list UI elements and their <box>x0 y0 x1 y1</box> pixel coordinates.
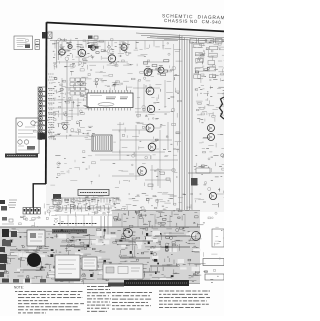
parts at far left above PCB <box>2 217 14 224</box>
display board comb row <box>55 198 118 203</box>
display block bottom line <box>55 214 112 216</box>
wires and small parts, control section <box>49 77 92 120</box>
heavy jagged wire at right edge <box>220 97 225 119</box>
connector box right column <box>212 229 224 247</box>
wire: main top rail <box>50 40 178 42</box>
notes list left column <box>15 292 84 313</box>
transistor Q14 <box>138 167 147 176</box>
transformer T1 (hatched box) <box>92 135 112 151</box>
PCB dark solder specks <box>3 229 174 278</box>
ground lug marks at left edge <box>0 200 17 211</box>
notes column 3 <box>112 293 152 310</box>
PCB vertical traces x100-108 <box>101 216 108 239</box>
dark marks along left edge of PCB <box>0 247 6 277</box>
speaker SP1 (black circle) <box>27 253 41 267</box>
wire: links near transformer <box>95 155 150 160</box>
label box right column 2 <box>205 274 224 280</box>
notes sub column <box>87 287 111 312</box>
transistor Q16 <box>208 134 215 141</box>
dark marks along PCB bottom edge left <box>2 279 46 283</box>
wire: v-wire x136 <box>135 125 137 180</box>
wire: vertical bus lines right side <box>150 35 192 211</box>
connector: small block cluster right of line <box>88 36 98 43</box>
dark parts cluster near line <box>88 45 99 49</box>
labels above strip <box>48 74 54 83</box>
wire: long slanted rails under border <box>136 33 224 42</box>
label box right column 1 <box>203 259 224 266</box>
wire: verticals in control section <box>62 78 78 120</box>
wires above IC <box>93 78 132 92</box>
wires right of IC <box>135 81 181 120</box>
resistor group right mid <box>195 85 229 122</box>
dark bar left remnant <box>108 283 124 287</box>
IC U1 with pins <box>87 90 133 111</box>
wires and small parts, sparse below IF <box>57 65 133 76</box>
wire: heavy left vertical line <box>45 22 48 184</box>
wire: long vertical at x67 <box>66 60 68 133</box>
PCB parts main left <box>1 228 113 284</box>
display board components row <box>54 196 121 217</box>
box row under border top right <box>190 39 222 44</box>
PCB dark bus rows <box>10 236 190 272</box>
block: display board label box <box>78 190 109 196</box>
connection wires into PCB <box>60 214 185 227</box>
connector CN1 at tuner box <box>35 40 40 50</box>
transistor Q4 <box>91 44 96 50</box>
label bar under sub board <box>5 154 38 158</box>
svg-text:NOTE:: NOTE: <box>14 286 24 290</box>
wire: long vertical at x173 <box>173 44 175 205</box>
wires between sub board and strip <box>33 120 49 134</box>
wire: drops from top rail <box>55 41 163 53</box>
PCB white component patches <box>2 230 201 284</box>
label text on bar <box>7 155 36 157</box>
connector: multi-pin ring strip CN2 <box>38 87 55 140</box>
wire: h-rail y130 <box>112 129 150 131</box>
PCB parts upper right <box>114 210 204 229</box>
notes column 4 <box>159 291 210 308</box>
wire: vertical pair x57 <box>57 40 59 64</box>
transistor Q5 <box>108 53 115 62</box>
transistor Q8 <box>158 65 164 73</box>
wires and parts, vertical amp section <box>113 122 181 187</box>
connector row under heavy line <box>23 208 40 215</box>
transistor Q17 <box>209 192 216 199</box>
PCB trace lines <box>5 231 206 280</box>
parts right column lower <box>194 123 229 208</box>
transistor Q6 <box>121 43 127 51</box>
label box on divider <box>196 168 210 173</box>
display board lower comb row <box>58 206 112 211</box>
wire: h-rail y152 <box>112 151 165 153</box>
relay box <box>27 230 45 246</box>
sparse wires near heavy line <box>50 151 99 185</box>
wires and parts below control section <box>48 120 95 139</box>
dark jack blocks left of display row <box>53 194 61 205</box>
wire: divider line right column <box>188 172 224 174</box>
resistor row blocks top right <box>194 44 218 78</box>
wires cluster left of bus, lower <box>145 165 175 190</box>
connector: dark block at strip bottom <box>38 133 47 140</box>
connector: jack block on main line <box>42 32 52 39</box>
wire: horizontals in control section <box>48 100 86 114</box>
transistor Q12 <box>146 124 154 132</box>
transistor Q15 <box>208 125 215 132</box>
wire: h-rail y160 <box>130 159 178 161</box>
wire: heavy staircase to bottom connector <box>33 184 46 208</box>
power transformer box <box>55 255 80 281</box>
capacitor C30 <box>63 125 68 130</box>
transistor Q11 <box>147 105 154 112</box>
PCB parts main right <box>111 228 202 285</box>
PCB upper edge line right <box>112 210 200 228</box>
wire: v-wire x168 <box>167 122 169 150</box>
wire: h-rail y176 <box>112 175 140 177</box>
resistor ladder cluster <box>70 78 85 95</box>
component cluster mid top <box>143 60 169 76</box>
wires and small parts, mid top section <box>131 42 182 81</box>
dark component cluster left edge <box>0 229 17 263</box>
wire: horizontal right of IC <box>133 88 170 112</box>
block: sub tuner board <box>16 118 39 154</box>
bridge rectifier box <box>103 264 143 279</box>
wire: verticals right of IC <box>138 80 165 118</box>
parts above display row <box>57 162 72 175</box>
label strip above PCB edge <box>58 223 97 225</box>
scan haze over schematic field <box>46 30 224 212</box>
transistor Q21 on PCB <box>192 232 201 241</box>
transistor Q7 <box>144 67 152 76</box>
wires and small parts, IF amp section <box>52 38 133 69</box>
wire: secondary rail <box>56 61 128 63</box>
transistor Q2 <box>68 43 72 49</box>
wire: rail at y136 <box>50 135 90 137</box>
parts between connector row and jacks <box>44 199 58 216</box>
wire: v-wire x120 <box>119 122 121 160</box>
dark module right column <box>191 178 198 186</box>
transistor Q13 <box>148 143 156 151</box>
dark text bar on PCB <box>52 229 87 234</box>
PCB top edge line <box>0 226 200 228</box>
wire: v-wire x160 <box>159 130 161 188</box>
PCB bottom edge line <box>0 283 200 285</box>
transistor Q10 <box>146 87 154 95</box>
transistor Q20 on PCB <box>124 229 133 238</box>
wire: h-rail y140 <box>120 139 172 141</box>
dark connector bar bottom <box>124 280 189 286</box>
parts above PCB left edge zone <box>19 215 64 230</box>
PCB board main shaded area <box>0 227 200 284</box>
capacitor C100 box <box>82 257 97 270</box>
transistor Q3 <box>78 48 85 57</box>
parts right light column <box>203 212 228 282</box>
components row right of display <box>121 192 194 216</box>
wire: heavy top border line <box>47 23 225 32</box>
transistor Q1 <box>59 47 65 55</box>
block: antenna/tuner box <box>14 36 33 50</box>
small parts, top right block <box>192 40 230 83</box>
